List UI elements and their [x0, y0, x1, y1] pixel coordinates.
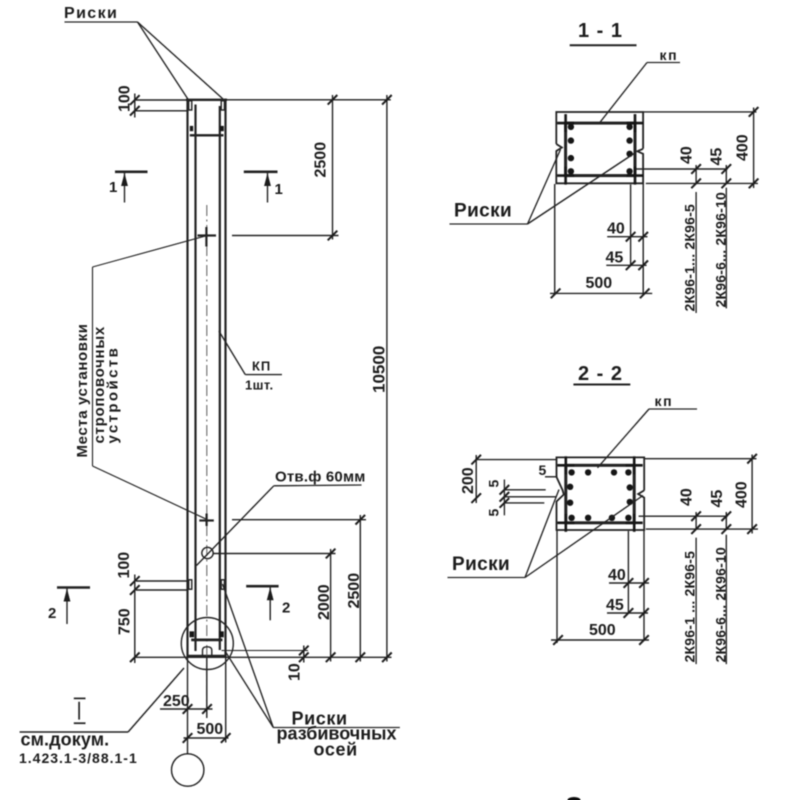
section 1-1 side bars left	[568, 124, 574, 130]
section 1-1 label kp	[599, 47, 680, 123]
svg-text:5: 5	[486, 480, 502, 488]
strop mark lower cross	[199, 519, 214, 521]
section 2-2 dimensions 40-45 right	[639, 488, 758, 534]
anchor dot bottom-right	[219, 631, 224, 637]
cropped letter mark at bottom edge	[568, 797, 581, 800]
section 2-2 top row bars	[568, 469, 574, 475]
section mark 1 left	[109, 172, 148, 203]
section 2-2 series labels	[682, 535, 729, 664]
svg-text:2 - 2: 2 - 2	[578, 363, 623, 385]
svg-text:1 - 1: 1 - 1	[578, 20, 623, 42]
svg-text:500: 500	[197, 721, 224, 738]
bottom corner line and 10-dim extension	[222, 650, 309, 652]
section 2-2 corner bars	[557, 456, 574, 474]
svg-text:10500: 10500	[370, 346, 389, 393]
svg-text:40: 40	[679, 488, 696, 506]
section 1-1 stirrup	[566, 123, 635, 176]
svg-text:1: 1	[275, 181, 283, 198]
svg-text:1.423.1-3/88.1-1: 1.423.1-3/88.1-1	[19, 750, 138, 766]
axis circle bottom	[172, 754, 204, 786]
section 1-1 title	[570, 20, 637, 45]
label Mesta ustanovki stropovochnyh ustroistv	[74, 236, 206, 519]
svg-text:2: 2	[282, 600, 290, 617]
label Riski razbivochnyh osei	[223, 584, 400, 760]
svg-text:45: 45	[709, 490, 726, 508]
strop mark upper cross	[198, 234, 217, 236]
riska notch top-right	[221, 101, 224, 110]
section 2-2 right bars	[627, 484, 633, 490]
section 1-1 dimensions below	[550, 184, 652, 298]
section 1-1 corner bars	[557, 114, 574, 132]
svg-text:5: 5	[539, 462, 547, 478]
section 2-2 dimension 400 right	[645, 454, 757, 534]
section 1-1 concrete outline with riska notches	[556, 112, 643, 183]
section 2-2 label Riski	[448, 490, 644, 578]
dimension 100 top	[117, 85, 187, 117]
label Riski top	[64, 5, 223, 100]
section 2-2 left bars	[567, 484, 573, 490]
svg-text:1шт.: 1шт.	[245, 378, 274, 393]
svg-text:200: 200	[460, 467, 477, 494]
section 2-2 bottom row bars	[568, 515, 574, 521]
dimension 250	[160, 657, 213, 754]
svg-text:КП: КП	[252, 359, 271, 374]
upper tie bar	[190, 134, 224, 136]
svg-text:кп: кп	[655, 393, 674, 409]
bottom center arch mark	[203, 647, 212, 656]
svg-text:40: 40	[608, 567, 626, 584]
svg-text:400: 400	[734, 481, 751, 508]
svg-text:Отв.ф 60мм: Отв.ф 60мм	[275, 469, 366, 486]
column elevation	[181, 99, 308, 716]
svg-text:45: 45	[606, 250, 624, 267]
svg-text:2000: 2000	[316, 584, 333, 620]
label Sm dokum	[19, 668, 184, 766]
svg-text:10: 10	[287, 663, 304, 681]
section mark 2 left	[48, 588, 90, 625]
svg-text:2К96-1... 2К96-5: 2К96-1... 2К96-5	[682, 204, 698, 311]
svg-text:500: 500	[589, 622, 616, 639]
svg-text:устройств: устройств	[105, 346, 122, 444]
label Otv f60mm	[197, 469, 366, 566]
section mark 2 right	[246, 586, 290, 620]
dimension 500 bottom	[183, 657, 231, 743]
anchor dot upper-left	[190, 126, 193, 131]
dimension 2500 top	[227, 95, 391, 240]
rebar line right	[219, 106, 221, 650]
svg-text:1: 1	[109, 179, 117, 196]
svg-text:кп: кп	[660, 47, 679, 63]
section 2-2 dimensions below	[551, 531, 649, 645]
leader bracket to strop marks	[93, 236, 207, 519]
dimension 2000	[214, 549, 336, 662]
svg-text:100: 100	[117, 85, 134, 112]
svg-text:40: 40	[679, 146, 696, 164]
section 2-2 label kp	[598, 393, 698, 468]
svg-text:осей: осей	[314, 740, 358, 760]
rebar line left	[194, 105, 196, 652]
svg-text:250: 250	[163, 693, 190, 710]
column left wall	[186, 99, 188, 657]
svg-text:Места установки: Места установки	[74, 323, 91, 457]
dimension 10	[287, 646, 309, 682]
svg-text:2500: 2500	[313, 142, 330, 178]
section 2-2 dimension 200 left	[460, 455, 557, 503]
riska notch bottom-right	[221, 580, 224, 589]
anchor dot bottom-left	[190, 631, 195, 637]
column center line	[206, 205, 208, 716]
svg-text:750: 750	[117, 608, 134, 635]
section 2-2 concrete outline with riska notches	[557, 457, 645, 530]
svg-text:5: 5	[486, 509, 502, 517]
column top edge	[186, 99, 227, 101]
dimension 2500 bottom	[232, 515, 366, 662]
svg-text:см.докум.: см.докум.	[21, 730, 110, 750]
riska notch bottom-left	[189, 580, 192, 589]
svg-text:2К96-6... 2К96-10: 2К96-6... 2К96-10	[713, 192, 729, 307]
bottom extension line across	[135, 656, 392, 658]
svg-text:45: 45	[709, 148, 726, 166]
svg-text:500: 500	[586, 275, 613, 292]
svg-text:45: 45	[606, 597, 624, 614]
svg-text:100: 100	[116, 552, 133, 579]
section 1-1 dimension 400 right	[644, 107, 758, 188]
section 2-2 dimensions 5-5-5 left	[486, 462, 558, 517]
detail circle	[181, 618, 233, 670]
column right wall	[224, 99, 226, 657]
svg-text:2: 2	[48, 605, 56, 622]
svg-text:2К96-6... 2К96-10: 2К96-6... 2К96-10	[713, 547, 729, 662]
svg-text:Риски: Риски	[452, 554, 510, 575]
dimension 10500	[370, 95, 392, 662]
svg-text:2500: 2500	[346, 573, 363, 609]
section 1-1 side bars right	[626, 124, 632, 130]
section 1-1 label Riski	[450, 150, 637, 225]
column bottom edge	[187, 655, 227, 658]
section mark 1 right	[244, 172, 283, 203]
svg-text:40: 40	[607, 221, 625, 238]
section 2-2 title	[573, 363, 630, 385]
svg-text:400: 400	[735, 134, 752, 161]
section 1-1 dimensions 40-45 right	[636, 146, 758, 188]
svg-text:Риски: Риски	[454, 201, 512, 222]
hole circle	[202, 547, 213, 558]
section 1-1 series labels	[682, 188, 729, 313]
anchor dot upper-right	[220, 126, 224, 131]
label KP 1sht	[219, 331, 282, 393]
bottom tie bar	[191, 639, 222, 642]
riska notch top-left	[189, 101, 192, 110]
svg-text:Риски: Риски	[64, 5, 118, 22]
dimension 100-750 bottom left	[116, 552, 187, 663]
svg-text:2К96-1 ... 2К96-5: 2К96-1 ... 2К96-5	[682, 551, 698, 663]
section 2-2 stirrup	[566, 465, 634, 523]
